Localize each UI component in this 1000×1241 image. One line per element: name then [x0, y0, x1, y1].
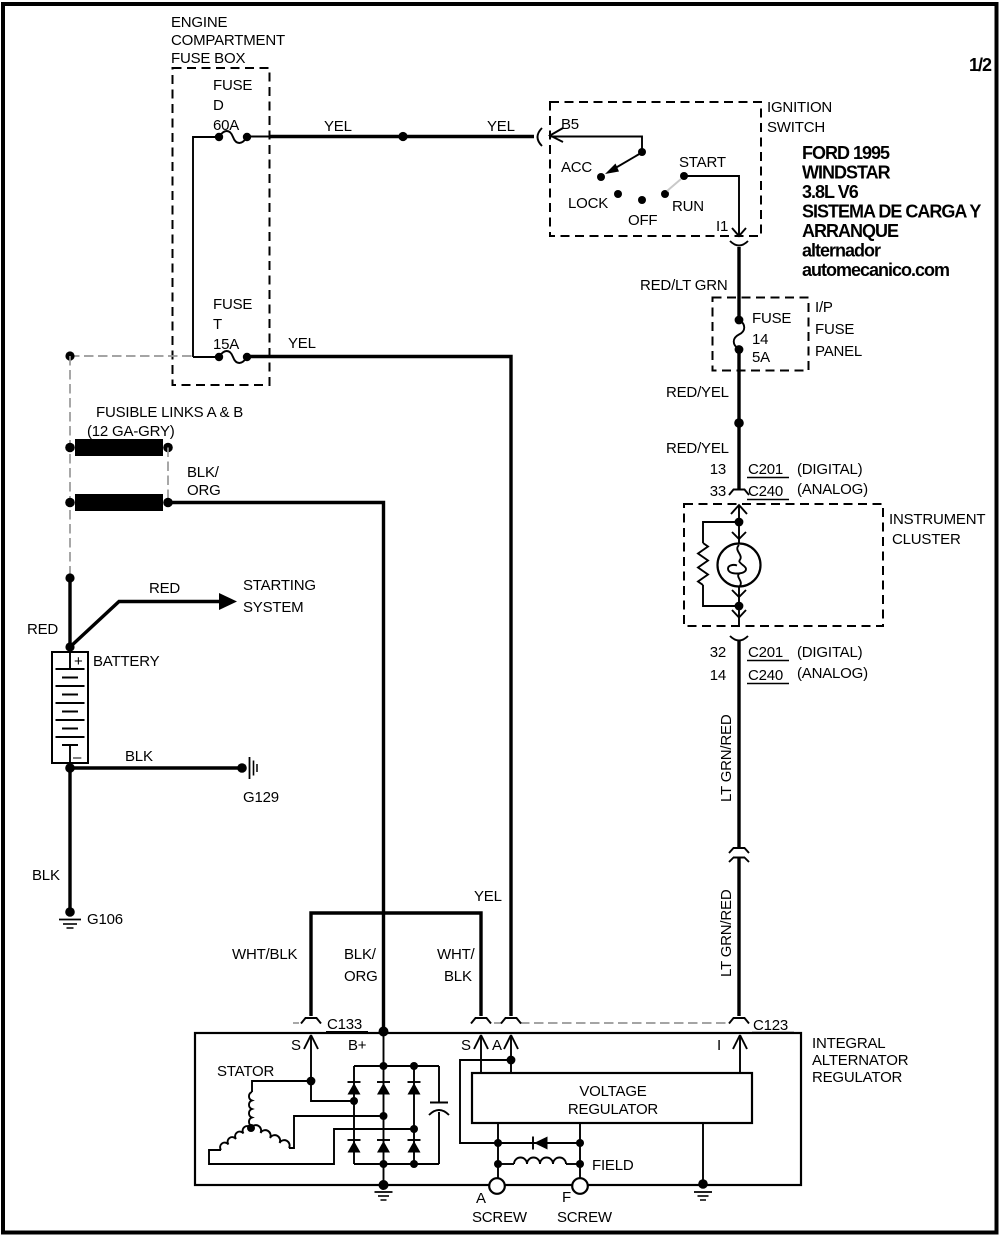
svg-text:5A: 5A: [752, 349, 770, 366]
dash left of C133: [293, 1022, 299, 1024]
node field diode A: [494, 1139, 502, 1147]
wire RED/YEL to connector C201/C240: [737, 423, 740, 489]
wire fuse D left lead: [193, 137, 219, 357]
junction node RED/YEL: [734, 418, 744, 428]
svg-text:WHT/BLK: WHT/BLK: [232, 946, 297, 963]
wire S tap to stator top: [252, 1081, 311, 1092]
node phase1: [350, 1097, 358, 1105]
wire RED/LT GRN ignition to I/P fuse panel: [737, 247, 740, 320]
arrowhead starting system: [219, 593, 237, 610]
node A branch: [507, 1056, 516, 1065]
contact START: [680, 172, 688, 180]
svg-text:(12 GA-GRY): (12 GA-GRY): [87, 423, 175, 440]
arrow down at I1: [732, 228, 746, 236]
svg-text:WHT/: WHT/: [437, 946, 476, 963]
svg-text:BLK/: BLK/: [344, 946, 377, 963]
svg-text:S: S: [461, 1037, 471, 1054]
svg-text:IGNITION: IGNITION: [767, 99, 832, 116]
svg-text:I: I: [717, 1037, 721, 1054]
svg-text:ACC: ACC: [561, 159, 592, 176]
svg-text:FIELD: FIELD: [592, 1157, 634, 1174]
pin I arrow: [733, 1035, 747, 1073]
svg-text:FUSE: FUSE: [815, 321, 854, 338]
ground G129: [237, 757, 257, 779]
label BLK/ORG middle: [344, 946, 378, 985]
battery plates: [56, 669, 85, 745]
node lamp top: [735, 518, 744, 527]
svg-text:F: F: [562, 1189, 571, 1206]
svg-text:A: A: [476, 1190, 486, 1207]
wire B5 to pivot: [551, 137, 642, 151]
wire VR to field A side: [497, 1123, 499, 1178]
integral alternator regulator box: [195, 1033, 801, 1185]
capacitor C1: [429, 1066, 449, 1164]
switch wiper arm toward ACC: [605, 153, 641, 174]
in-line connector on LT GRN/RED wire: [729, 848, 749, 862]
fusible links label: [87, 404, 243, 440]
svg-text:FUSIBLE LINKS A & B: FUSIBLE LINKS A & B: [96, 404, 243, 421]
svg-text:ORG: ORG: [187, 482, 221, 499]
node field coil F: [576, 1160, 584, 1168]
svg-text:SYSTEM: SYSTEM: [243, 599, 303, 616]
label STARTING SYSTEM: [243, 577, 316, 616]
wire BLK battery to G106: [68, 768, 71, 912]
svg-text:C240: C240: [748, 483, 783, 500]
svg-text:C201: C201: [748, 644, 783, 661]
connector half at ignition B5: [538, 128, 543, 146]
diode D5: [377, 1140, 390, 1153]
diode D6: [408, 1140, 421, 1153]
voltage regulator box: [472, 1073, 752, 1123]
connector half C133 S pin: [301, 1018, 321, 1024]
wire cluster exit with arrow down: [732, 606, 746, 626]
arrow into B5: [550, 128, 563, 142]
svg-text:RED/LT GRN: RED/LT GRN: [640, 277, 727, 294]
node B+ at box edge: [379, 1027, 389, 1037]
connector C123 label: [752, 1017, 794, 1034]
svg-text:ORG: ORG: [344, 968, 378, 985]
svg-text:(DIGITAL): (DIGITAL): [797, 644, 863, 661]
node lamp bottom: [735, 602, 744, 611]
node field coil A: [494, 1160, 502, 1168]
svg-text:VOLTAGE: VOLTAGE: [579, 1083, 646, 1100]
wire stator right end to phase2 run: [289, 1116, 383, 1148]
field suppression diode: [498, 1137, 580, 1150]
node top rail B+: [380, 1062, 388, 1070]
rectifier column 1 wire: [353, 1066, 355, 1164]
diode D3: [408, 1082, 421, 1095]
node bottom rail col2: [380, 1160, 388, 1168]
svg-text:FORD 1995: FORD 1995: [802, 143, 890, 163]
fuse 14 5A label: [752, 310, 791, 366]
diode D4: [348, 1140, 361, 1153]
svg-text:G129: G129: [243, 789, 279, 806]
title block text: [802, 143, 981, 280]
pin A arrow: [504, 1035, 518, 1073]
connector C201 label (digital): [747, 461, 789, 478]
rectifier bottom rail: [354, 1163, 439, 1165]
faint wiper line RUN to START: [667, 179, 681, 191]
node at left of fuse T dashed wire: [65, 351, 74, 360]
svg-text:YEL: YEL: [288, 335, 316, 352]
svg-text:B+: B+: [348, 1037, 367, 1054]
svg-text:RUN: RUN: [672, 198, 704, 215]
svg-text:G106: G106: [87, 911, 123, 928]
connector half C133 S2 pin: [471, 1018, 491, 1024]
connector C240 label lower: [747, 667, 789, 684]
contact ACC: [597, 173, 605, 181]
wire fuse T left lead: [193, 356, 219, 358]
svg-text:B5: B5: [561, 116, 579, 133]
junction node on YEL wire: [398, 132, 407, 141]
diode D2: [377, 1082, 390, 1095]
svg-text:C133: C133: [327, 1016, 362, 1033]
svg-text:C123: C123: [753, 1017, 788, 1034]
A screw terminal: [489, 1178, 505, 1194]
fuse D 60A label: [213, 77, 252, 134]
battery negative terminal lead: [69, 745, 71, 768]
wire BLK/ORG link B to regulator B+: [168, 503, 384, 1032]
node top rail col3: [410, 1062, 418, 1070]
svg-text:YEL: YEL: [474, 888, 502, 905]
node battery negative: [65, 763, 75, 773]
svg-text:1/2: 1/2: [969, 55, 992, 75]
pivot contact node: [638, 148, 646, 156]
connector half at cluster input: [729, 490, 749, 496]
wire YEL fuse D to ignition switch: [269, 135, 534, 138]
wire LT GRN/RED upper segment: [737, 641, 740, 848]
svg-text:YEL: YEL: [324, 118, 352, 135]
wire lamp top lead with chevron: [732, 522, 746, 544]
svg-text:ALTERNATOR: ALTERNATOR: [812, 1052, 909, 1069]
fuse D element: [215, 131, 251, 143]
contact RUN: [661, 190, 669, 198]
svg-text:FUSE BOX: FUSE BOX: [171, 50, 245, 67]
svg-text:BLK: BLK: [444, 968, 472, 985]
svg-text:FUSE: FUSE: [213, 77, 252, 94]
svg-text:WINDSTAR: WINDSTAR: [802, 163, 891, 183]
wire BLK battery to G129: [70, 766, 242, 769]
wire B+ into rectifier: [383, 1031, 385, 1066]
I/P fuse panel label: [815, 299, 862, 360]
svg-text:STARTING: STARTING: [243, 577, 316, 594]
svg-text:FUSE: FUSE: [752, 310, 791, 327]
dashed wire between link ends right side: [167, 448, 169, 503]
wire START to I1 pin: [684, 176, 739, 235]
ignition switch box (dashed): [550, 102, 761, 236]
wire YEL from fuse T down to regulator A pin: [247, 357, 511, 1017]
svg-text:S: S: [291, 1037, 301, 1054]
wire RED/YEL fuse panel down: [737, 349, 740, 423]
connector half below I1: [730, 241, 748, 246]
wire stator left end to phase3 run: [209, 1129, 414, 1164]
svg-text:BLK: BLK: [125, 748, 153, 765]
svg-text:STATOR: STATOR: [217, 1063, 275, 1080]
alternator warning indicator lamp: [718, 544, 761, 588]
svg-text:automecanico.com: automecanico.com: [802, 260, 949, 280]
integral alternator regulator label: [812, 1035, 909, 1086]
connector C133 label: [326, 1016, 368, 1033]
svg-text:14: 14: [752, 331, 768, 348]
stator winding vertical: [249, 1092, 252, 1126]
svg-text:LOCK: LOCK: [568, 195, 608, 212]
svg-text:COMPARTMENT: COMPARTMENT: [171, 32, 285, 49]
svg-text:I1: I1: [716, 218, 728, 235]
svg-text:14: 14: [710, 667, 726, 684]
svg-text:REGULATOR: REGULATOR: [812, 1069, 903, 1086]
node field diode F: [576, 1139, 584, 1147]
svg-text:SISTEMA DE CARGA Y: SISTEMA DE CARGA Y: [802, 202, 981, 222]
svg-text:I/P: I/P: [815, 299, 833, 316]
svg-text:BLK/: BLK/: [187, 464, 220, 481]
dash between S2 and A: [494, 1022, 502, 1024]
battery case: [52, 652, 88, 763]
fusible link B: [65, 494, 173, 511]
svg-text:(ANALOG): (ANALOG): [797, 665, 868, 682]
svg-text:ENGINE: ENGINE: [171, 14, 228, 31]
rectifier ground: [375, 1164, 393, 1200]
voltage regulator label: [568, 1083, 659, 1118]
dashed wire battery node to fuse T: [70, 355, 193, 357]
svg-text:33: 33: [710, 483, 726, 500]
wire entry to top node: [738, 505, 740, 522]
label F SCREW: [557, 1189, 613, 1226]
svg-text:3.8L V6: 3.8L V6: [802, 182, 859, 202]
dashed harness line to C123: [520, 1022, 729, 1024]
svg-text:C240: C240: [748, 667, 783, 684]
stator winding left: [220, 1126, 251, 1150]
svg-text:SCREW: SCREW: [472, 1209, 528, 1226]
I/P fuse panel box (dashed): [713, 298, 809, 371]
regulator internal ground: [694, 1123, 712, 1200]
fuse T element: [215, 351, 251, 363]
battery positive terminal lead: [69, 648, 71, 669]
node stator phase1 / S tap: [307, 1077, 316, 1086]
svg-text:13: 13: [710, 461, 726, 478]
svg-text:CLUSTER: CLUSTER: [892, 531, 961, 548]
contact LOCK: [614, 190, 622, 198]
wire VR to field F side: [579, 1123, 581, 1178]
label A SCREW: [472, 1190, 528, 1226]
svg-text:(DIGITAL): (DIGITAL): [797, 461, 863, 478]
svg-text:LT GRN/RED: LT GRN/RED: [718, 889, 735, 977]
wire phase1 run to rectifier: [311, 1081, 354, 1101]
connector C240 label (analog): [747, 483, 789, 500]
node battery positive: [65, 642, 74, 651]
pin S2 arrow: [474, 1035, 488, 1073]
engine compartment fuse box (dashed): [173, 68, 270, 385]
svg-text:LT GRN/RED: LT GRN/RED: [718, 714, 735, 802]
fuse T 15A label: [213, 296, 252, 353]
rectifier column 2 wire: [383, 1066, 385, 1164]
engine compartment fuse box label: [171, 14, 285, 67]
connector C201 label lower: [747, 644, 789, 661]
instrument cluster label: [889, 511, 985, 548]
wire LT GRN/RED lower segment: [737, 858, 740, 1016]
svg-text:–: –: [73, 749, 82, 766]
rectifier top rail: [354, 1065, 439, 1067]
svg-text:RED: RED: [149, 580, 180, 597]
wire RED to starting system: [70, 602, 221, 648]
node bottom rail col3: [410, 1160, 418, 1168]
svg-text:INTEGRAL: INTEGRAL: [812, 1035, 885, 1052]
svg-text:OFF: OFF: [628, 212, 657, 229]
stator winding right: [251, 1125, 290, 1148]
fusible link A: [65, 439, 173, 456]
svg-text:ARRANQUE: ARRANQUE: [802, 221, 899, 241]
svg-text:SWITCH: SWITCH: [767, 119, 825, 136]
svg-text:C201: C201: [748, 461, 783, 478]
svg-text:RED: RED: [27, 621, 58, 638]
node below links: [65, 573, 74, 582]
resistor (shunt): [698, 543, 708, 585]
svg-text:SCREW: SCREW: [557, 1209, 613, 1226]
contact OFF: [638, 196, 646, 204]
fuse 14 element: [734, 316, 745, 354]
node phase3: [410, 1125, 418, 1133]
svg-text:YEL: YEL: [487, 118, 515, 135]
svg-text:RED/YEL: RED/YEL: [666, 384, 729, 401]
svg-text:RED/YEL: RED/YEL: [666, 440, 729, 457]
connector half below cluster: [730, 636, 748, 641]
arrow up at cluster entry: [731, 505, 747, 514]
svg-text:(ANALOG): (ANALOG): [797, 481, 868, 498]
node phase2: [380, 1112, 388, 1120]
svg-text:FUSE: FUSE: [213, 296, 252, 313]
pin S left arrow: [304, 1035, 318, 1081]
field coil: [498, 1158, 580, 1164]
connector half C123: [729, 1018, 749, 1024]
svg-text:A: A: [492, 1037, 502, 1054]
ignition switch label: [767, 99, 832, 136]
svg-text:PANEL: PANEL: [815, 343, 862, 360]
wire lamp bottom lead with chevron: [732, 586, 746, 606]
diode D1: [348, 1082, 361, 1095]
wire branch to resistor: [703, 522, 739, 543]
svg-text:32: 32: [710, 644, 726, 661]
node stator centre: [247, 1124, 255, 1132]
rectifier column 3 wire: [413, 1066, 415, 1164]
wire A branch to field A side: [460, 1060, 511, 1143]
svg-text:alternador: alternador: [802, 241, 881, 261]
wire resistor bottom to lamp bottom node: [703, 585, 739, 606]
svg-text:START: START: [679, 154, 726, 171]
svg-text:REGULATOR: REGULATOR: [568, 1101, 659, 1118]
svg-text:BLK: BLK: [32, 867, 60, 884]
svg-text:INSTRUMENT: INSTRUMENT: [889, 511, 985, 528]
F screw terminal: [572, 1178, 588, 1194]
label WHT/BLK right: [437, 946, 476, 985]
wire node to battery positive: [68, 578, 71, 648]
wire WHT/BLK bridge between S pins: [311, 913, 481, 1016]
label BLK/ORG: [187, 464, 221, 499]
svg-text:BATTERY: BATTERY: [93, 653, 160, 670]
svg-text:D: D: [213, 97, 224, 114]
dashed wire down through fusible links: [69, 356, 71, 578]
wire fuse D to box edge: [247, 136, 269, 138]
connector half C133 A pin: [501, 1018, 521, 1024]
instrument cluster box (dashed): [684, 504, 883, 626]
ground G106: [59, 907, 81, 928]
svg-text:+: +: [74, 653, 83, 670]
svg-text:T: T: [213, 316, 222, 333]
